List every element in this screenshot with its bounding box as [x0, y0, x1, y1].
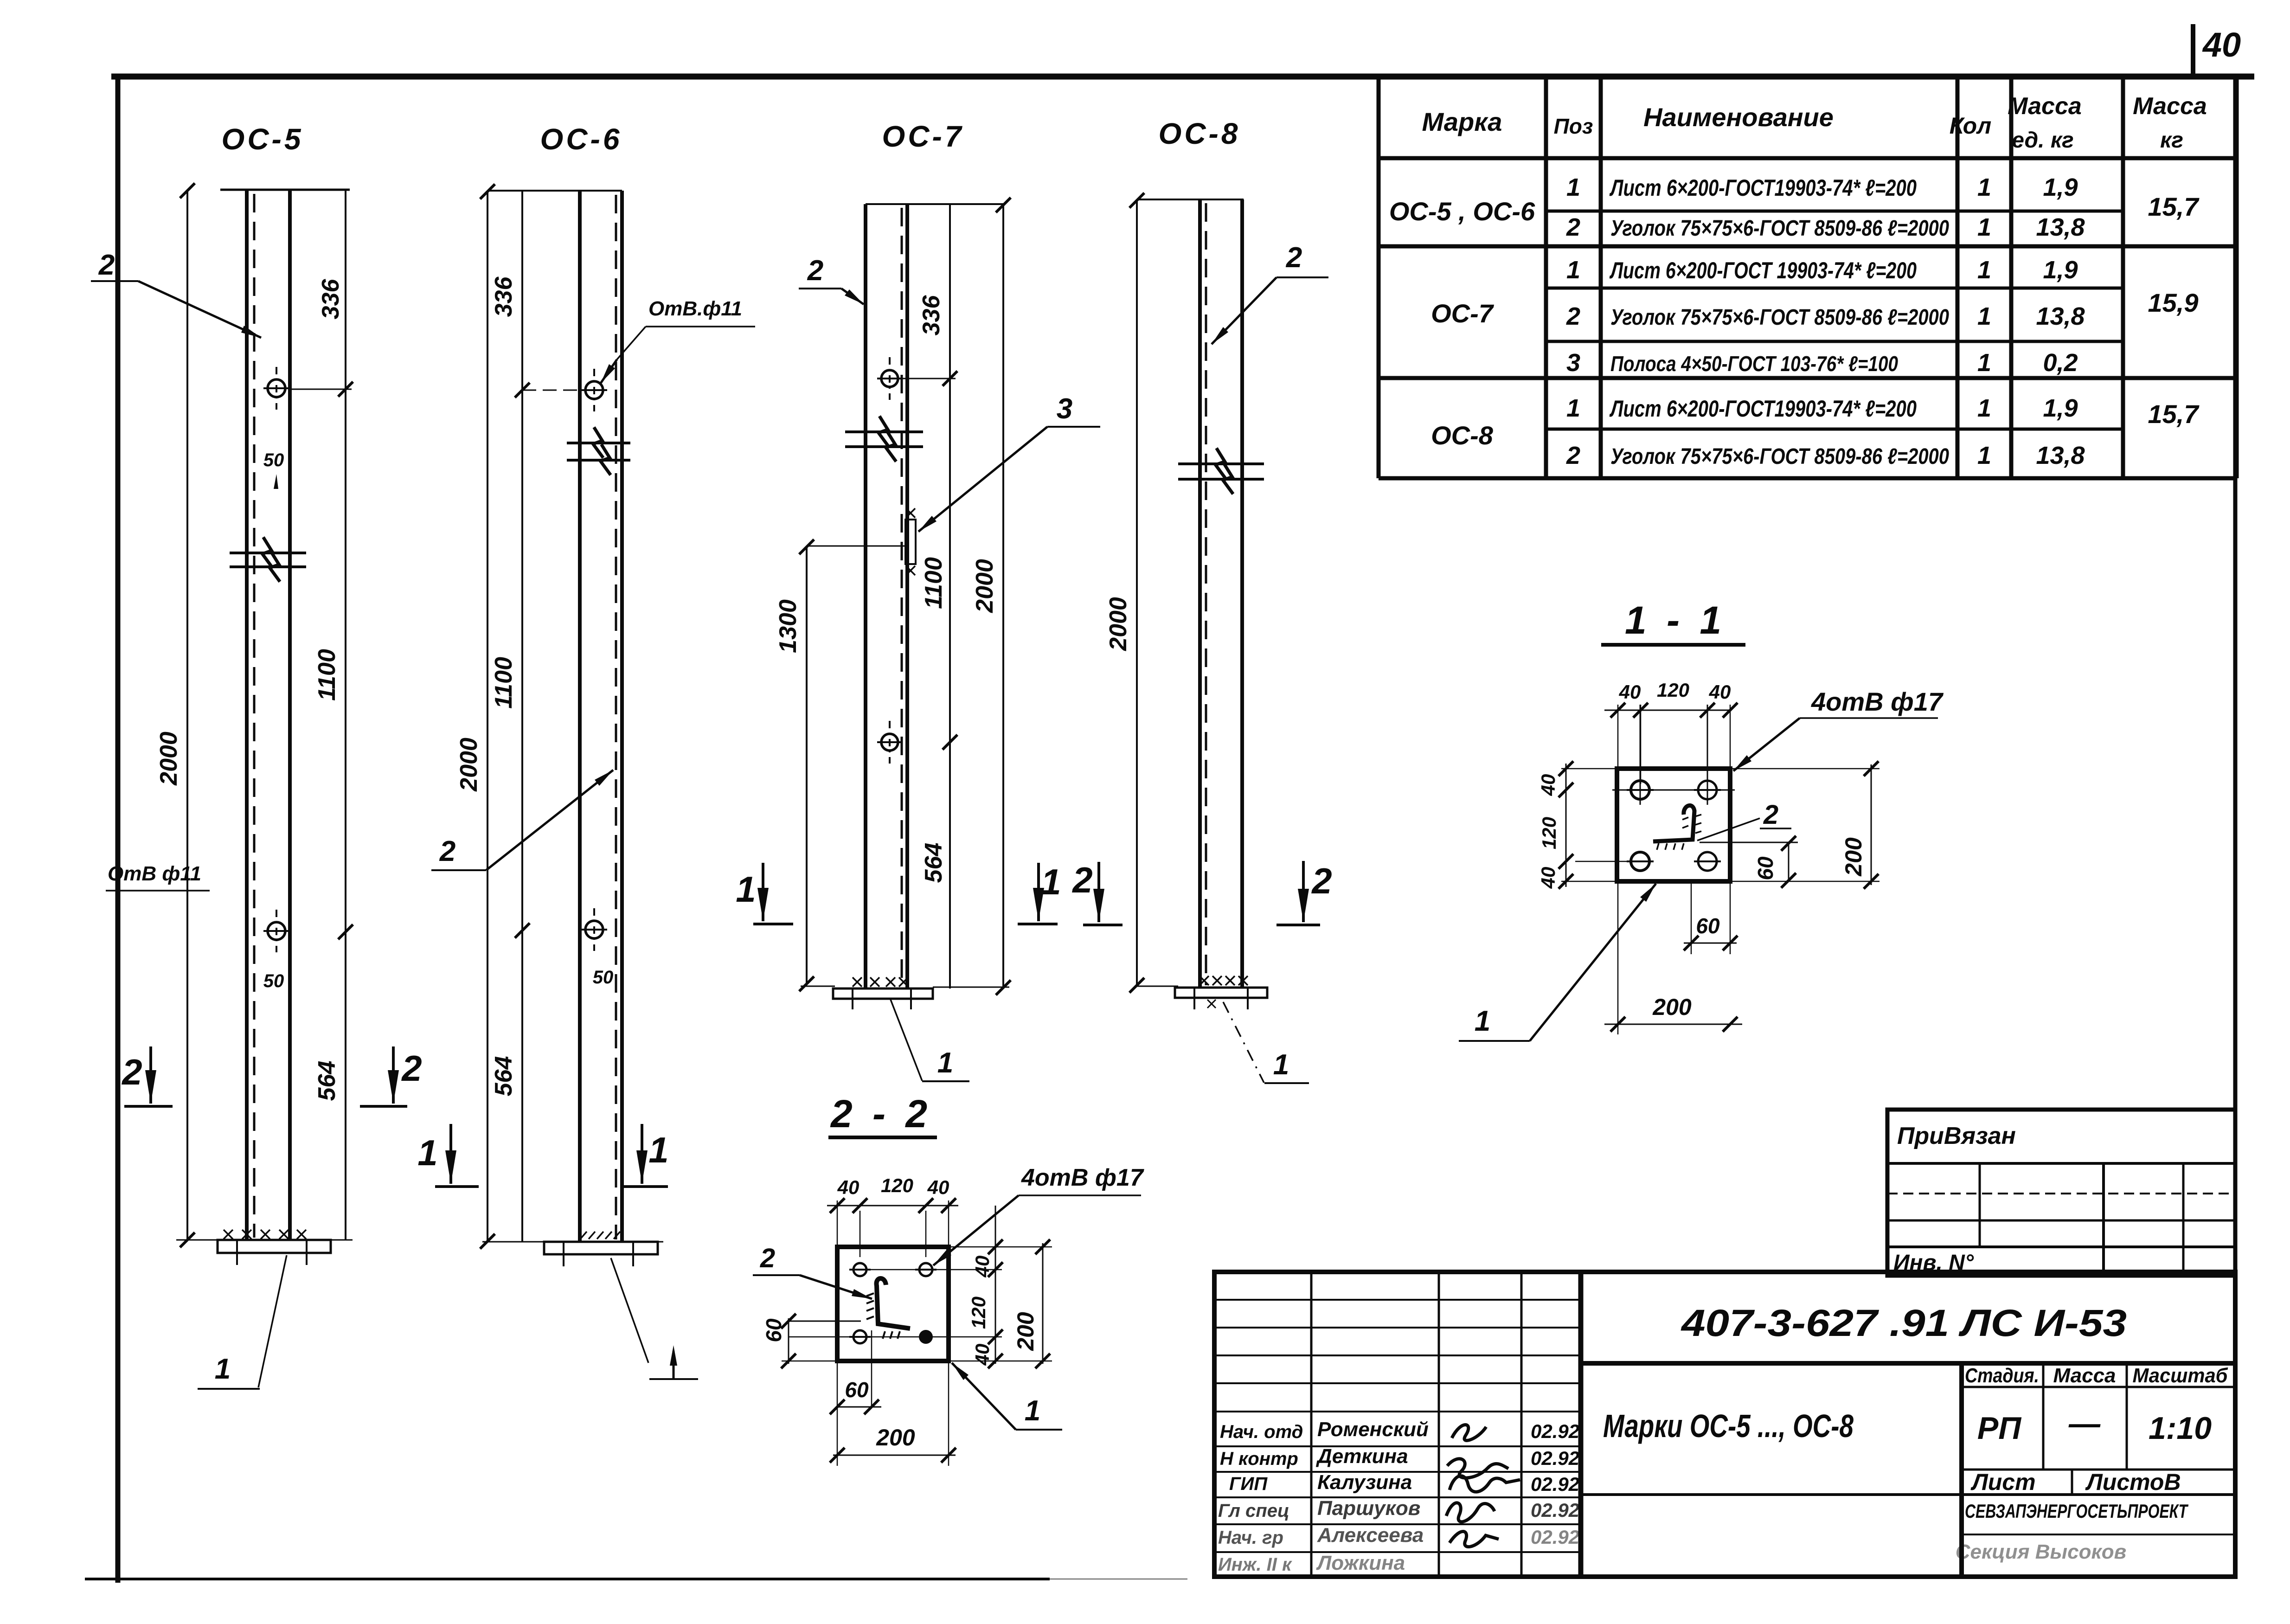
svg-text:60: 60: [845, 1378, 869, 1402]
svg-text:Нач. отд: Нач. отд: [1220, 1422, 1303, 1442]
svg-text:2: 2: [807, 255, 823, 287]
svg-text:Поз: Поз: [1554, 114, 1593, 138]
1-1 left dimension 40 120 40: [1565, 764, 1567, 887]
svg-text:40: 40: [1709, 681, 1731, 703]
1-1 hole top-left: [1631, 781, 1649, 799]
svg-text:ОС-5 , ОС-6: ОС-5 , ОС-6: [1389, 197, 1535, 226]
OC-7 base plate: [801, 986, 835, 987]
OC-6 dimension 2000 line: [487, 191, 488, 1242]
svg-text:2000: 2000: [155, 732, 182, 786]
svg-text:1: 1: [1977, 349, 1991, 377]
svg-text:1: 1: [1566, 173, 1580, 201]
section 2-2 base plate: [837, 1247, 949, 1361]
svg-text:Деткина: Деткина: [1315, 1445, 1408, 1468]
svg-text:Стадия.: Стадия.: [1965, 1364, 2039, 1387]
1-1 top dimension 40 120 40: [1604, 710, 1732, 711]
section 1-1 base plate: [1617, 769, 1730, 881]
OC-7 leader to plate pos 1: [891, 1000, 922, 1081]
OC-6 weld marks: [580, 1232, 587, 1239]
OC-6 top extension line: [488, 190, 622, 192]
svg-text:Масса: Масса: [2053, 1364, 2116, 1387]
svg-text:564: 564: [490, 1056, 517, 1097]
svg-text:40: 40: [927, 1176, 949, 1198]
2-2 right chain dimensions: [995, 1206, 996, 1364]
svg-text:13,8: 13,8: [2036, 213, 2085, 241]
svg-text:40: 40: [1537, 774, 1559, 796]
OC-6 hole 2: [585, 921, 603, 938]
svg-text:Кол: Кол: [1950, 113, 1991, 139]
svg-text:Лист 6×200-ГОСТ19903-74* ℓ=200: Лист 6×200-ГОСТ19903-74* ℓ=200: [1610, 175, 1917, 201]
2-2 hole top-left: [853, 1263, 866, 1276]
OC-7 dimension 2000 line: [1002, 204, 1004, 989]
OC-6 section mark 1 right: [641, 1124, 643, 1184]
svg-text:1,9: 1,9: [2043, 173, 2078, 201]
svg-text:15,9: 15,9: [2148, 288, 2199, 317]
svg-text:1: 1: [215, 1353, 231, 1385]
OC-5 top extension line: [220, 189, 350, 191]
svg-text:Секция Высоков: Секция Высоков: [1956, 1541, 2126, 1563]
OC-7 hole 2: [881, 734, 898, 751]
svg-text:40: 40: [971, 1256, 993, 1278]
svg-text:02.92: 02.92: [1531, 1447, 1579, 1469]
svg-text:120: 120: [881, 1175, 913, 1196]
svg-text:1100: 1100: [920, 557, 947, 609]
1-1 angle weld symbol pos 2: [1653, 805, 1694, 841]
border frame: [111, 74, 2254, 80]
svg-text:15,7: 15,7: [2148, 399, 2200, 429]
svg-text:3: 3: [1057, 393, 1072, 425]
svg-text:2: 2: [1071, 860, 1092, 900]
svg-text:13,8: 13,8: [2036, 442, 2085, 469]
svg-text:336: 336: [918, 295, 945, 336]
svg-text:2: 2: [760, 1243, 775, 1273]
svg-text:2000: 2000: [971, 559, 998, 613]
title block signature grid: [1214, 1299, 1581, 1301]
svg-text:2000: 2000: [1105, 597, 1132, 651]
svg-text:2: 2: [1763, 800, 1778, 830]
1-1 bottom dimension 200: [1617, 881, 1619, 1034]
svg-text:1: 1: [1025, 1395, 1040, 1427]
svg-text:Лист 6×200-ГОСТ 19903-74* ℓ=20: Лист 6×200-ГОСТ 19903-74* ℓ=200: [1610, 257, 1917, 283]
OC-6 angle body: [578, 191, 582, 1242]
OC-5 weld marks: [224, 1230, 233, 1239]
svg-text:60: 60: [762, 1318, 786, 1342]
svg-text:40: 40: [1537, 867, 1559, 889]
OC-7 strip position 3: [905, 520, 916, 564]
svg-text:1: 1: [1566, 256, 1580, 284]
svg-text:ГИП: ГИП: [1229, 1474, 1268, 1494]
svg-text:120: 120: [968, 1297, 989, 1329]
svg-text:ОС-5: ОС-5: [222, 122, 304, 156]
svg-text:120: 120: [1657, 679, 1689, 701]
OC-6 base plate: [482, 1241, 663, 1243]
svg-text:4отВ ф17: 4отВ ф17: [1021, 1164, 1144, 1191]
svg-text:Масса: Масса: [2133, 93, 2207, 120]
OC-7 section mark 1 left: [762, 863, 764, 921]
title block stadia header: [1959, 1363, 1964, 1577]
svg-text:1: 1: [1041, 861, 1061, 902]
svg-text:Гл спец: Гл спец: [1218, 1501, 1289, 1521]
svg-text:2: 2: [1566, 213, 1580, 241]
svg-text:1: 1: [417, 1132, 437, 1173]
1-1 hole top-right: [1698, 781, 1717, 799]
svg-text:2: 2: [1311, 860, 1332, 901]
svg-text:40: 40: [971, 1344, 993, 1366]
svg-text:1: 1: [1566, 394, 1580, 422]
svg-text:02.92: 02.92: [1531, 1420, 1579, 1442]
svg-text:1100: 1100: [314, 649, 340, 701]
OC-5 hole 1: [268, 379, 285, 397]
2-2 dimension 200 right: [949, 1246, 1052, 1248]
svg-text:Н контр: Н контр: [1220, 1449, 1298, 1469]
OC-6 break symbol: [567, 442, 630, 444]
svg-text:02.92: 02.92: [1531, 1526, 1579, 1548]
OC-5 chain dimension line: [345, 190, 346, 1240]
1-1 dimension 60 right: [1700, 842, 1798, 843]
OC-7 dimension 1300: [806, 546, 808, 985]
svg-text:Марка: Марка: [1422, 107, 1502, 136]
svg-text:1,9: 1,9: [2043, 394, 2078, 422]
2-2 top dimension 40 120 40: [827, 1205, 958, 1207]
svg-text:200: 200: [1013, 1312, 1039, 1351]
svg-text:РП: РП: [1977, 1411, 2022, 1446]
OC-6 hole 1: [585, 381, 603, 399]
OC-7 chain dimension line: [949, 204, 951, 989]
OC-8 break symbol: [1178, 462, 1264, 465]
svg-text:50: 50: [263, 971, 284, 991]
OC-8 base plate: [1137, 986, 1178, 987]
svg-text:2: 2: [1566, 302, 1580, 330]
2-2 bottom dimension 200: [948, 1361, 949, 1466]
svg-text:ОтВ.ф11: ОтВ.ф11: [648, 297, 742, 320]
svg-text:1: 1: [736, 869, 756, 910]
svg-text:60: 60: [1753, 856, 1777, 880]
OC-6 chain dimension line: [521, 191, 523, 1242]
OC-8 dimension 2000 line: [1136, 199, 1138, 986]
svg-text:2: 2: [1286, 242, 1302, 274]
svg-text:Полоса 4×50-ГОСТ 103-76* ℓ=10: Полоса 4×50-ГОСТ 103-76* ℓ=100: [1610, 352, 1898, 376]
OC-7 section mark 1 right: [1037, 863, 1040, 921]
OC-6 section mark 1 left: [449, 1124, 452, 1184]
svg-text:ПриВязан: ПриВязан: [1897, 1123, 2016, 1149]
svg-text:Масштаб: Масштаб: [2133, 1364, 2229, 1387]
svg-text:Лист 6×200-ГОСТ19903-74* ℓ=20: Лист 6×200-ГОСТ19903-74* ℓ=200: [1610, 396, 1917, 422]
svg-text:15,7: 15,7: [2148, 192, 2200, 221]
1-1 dimension 60 bottom: [1691, 881, 1692, 954]
svg-text:40: 40: [837, 1176, 860, 1198]
svg-text:Лист: Лист: [1970, 1469, 2035, 1495]
2-2 hole bottom-left: [853, 1330, 866, 1343]
svg-text:ОС-8: ОС-8: [1159, 117, 1241, 150]
svg-text:1: 1: [1475, 1005, 1490, 1037]
svg-text:Наименование: Наименование: [1643, 103, 1834, 132]
svg-text:ед. кг: ед. кг: [2012, 128, 2074, 153]
svg-text:Ложкина: Ложкина: [1316, 1552, 1405, 1574]
svg-text:1: 1: [1977, 256, 1991, 284]
2-2 hole bottom-right: [919, 1330, 933, 1344]
svg-text:Уголок 75×75×6-ГОСТ 8509-86 ℓ=: Уголок 75×75×6-ГОСТ 8509-86 ℓ=2000: [1610, 444, 1949, 469]
svg-text:ОС-7: ОС-7: [882, 120, 964, 153]
svg-text:Роменский: Роменский: [1317, 1418, 1429, 1441]
svg-text:40: 40: [2202, 26, 2241, 64]
svg-text:1 - 1: 1 - 1: [1625, 598, 1726, 642]
svg-text:50: 50: [593, 967, 614, 988]
svg-text:1,9: 1,9: [2043, 256, 2078, 284]
svg-text:2: 2: [401, 1048, 422, 1089]
svg-text:336: 336: [490, 276, 517, 317]
svg-text:1100: 1100: [490, 657, 517, 709]
signature squiggles: [1446, 1425, 1520, 1547]
OC-5 section mark 2 left: [149, 1046, 152, 1104]
svg-text:4отВ ф17: 4отВ ф17: [1811, 687, 1944, 716]
2-2 dimension 60 bottom: [871, 1330, 872, 1408]
OC-8 section mark 2 left: [1097, 862, 1100, 922]
OC-5 leader to plate pos 1: [258, 1255, 287, 1387]
svg-text:2: 2: [439, 835, 455, 867]
OC-7 top extension line: [866, 203, 1003, 205]
svg-text:40: 40: [1619, 681, 1641, 703]
svg-text:120: 120: [1538, 817, 1560, 849]
svg-text:13,8: 13,8: [2036, 302, 2085, 330]
OC-8 section mark 2 right: [1302, 861, 1305, 922]
svg-text:2: 2: [1566, 442, 1580, 469]
svg-text:336: 336: [317, 279, 344, 320]
parts table: [1377, 77, 1381, 478]
svg-text:1: 1: [1977, 173, 1991, 201]
title block frame: [1214, 1272, 2235, 1577]
svg-text:1300: 1300: [775, 599, 802, 653]
svg-text:1:10: 1:10: [2149, 1411, 2212, 1446]
svg-text:0,2: 0,2: [2043, 349, 2078, 377]
svg-text:ЛистоВ: ЛистоВ: [2085, 1469, 2181, 1495]
OC-7 break symbol: [845, 430, 923, 433]
2-2 angle weld symbol pos 2: [877, 1278, 910, 1329]
2-2 hole top-right: [919, 1263, 932, 1276]
svg-text:1: 1: [1977, 442, 1991, 469]
title block list row: [2071, 1470, 2073, 1495]
OC-8 leader to plate pos 1: [1223, 1002, 1264, 1083]
svg-text:2000: 2000: [455, 738, 482, 792]
OC-8 weld marks: [1200, 976, 1209, 985]
svg-text:02.92: 02.92: [1531, 1473, 1579, 1495]
OC-5 angle body: [245, 190, 249, 1240]
svg-text:ОС-6: ОС-6: [540, 122, 622, 156]
svg-text:407-3-627 .91 ЛС И-53: 407-3-627 .91 ЛС И-53: [1681, 1302, 2127, 1344]
svg-text:1: 1: [937, 1047, 953, 1079]
svg-text:Уголок 75×75×6-ГОСТ 8509-86 ℓ=: Уголок 75×75×6-ГОСТ 8509-86 ℓ=2000: [1610, 216, 1949, 241]
svg-text:60: 60: [1696, 914, 1720, 938]
OC-5 break symbol: [230, 552, 306, 554]
svg-text:1: 1: [1977, 302, 1991, 330]
svg-text:Алексеева: Алексеева: [1317, 1524, 1424, 1547]
svg-text:50: 50: [263, 450, 284, 470]
svg-text:2 - 2: 2 - 2: [830, 1092, 932, 1136]
svg-text:3: 3: [1566, 349, 1580, 377]
svg-text:564: 564: [920, 843, 947, 883]
svg-text:Паршуков: Паршуков: [1317, 1497, 1420, 1520]
1-1 right dimension 200: [1730, 768, 1879, 770]
OC-5 base plate: [176, 1239, 353, 1241]
OC-5 section mark 2 right: [392, 1046, 395, 1104]
svg-text:1: 1: [1977, 213, 1991, 241]
1-1 hole bottom-left: [1631, 852, 1649, 871]
svg-text:ОС-8: ОС-8: [1431, 421, 1494, 450]
OC-5 hole 2: [268, 922, 285, 940]
OC-7 angle body: [864, 204, 867, 989]
svg-text:2: 2: [121, 1052, 142, 1092]
svg-text:—: —: [2068, 1406, 2101, 1441]
svg-text:02.92: 02.92: [1531, 1499, 1579, 1521]
2-2 dimension 60 left: [789, 1321, 861, 1322]
svg-text:Марки ОС-5 ..., ОС-8: Марки ОС-5 ..., ОС-8: [1603, 1408, 1854, 1444]
svg-text:1: 1: [1977, 394, 1991, 422]
svg-text:Инж. II к: Инж. II к: [1218, 1554, 1292, 1575]
svg-text:200: 200: [1652, 994, 1692, 1020]
privyazan stamp box: [1887, 1110, 2235, 1276]
OC-5 dimension 2000 line: [186, 190, 188, 1240]
OC-6 leader to plate pos 1: [611, 1258, 648, 1363]
svg-text:1: 1: [648, 1130, 668, 1170]
svg-text:200: 200: [1841, 837, 1867, 877]
svg-text:200: 200: [876, 1425, 915, 1451]
svg-text:Уголок 75×75×6-ГОСТ 8509-86 ℓ=: Уголок 75×75×6-ГОСТ 8509-86 ℓ=2000: [1610, 305, 1949, 330]
OC-7 weld marks: [853, 977, 862, 987]
svg-text:564: 564: [314, 1061, 340, 1101]
svg-text:ОтВ ф11: ОтВ ф11: [108, 862, 201, 885]
svg-text:1: 1: [1273, 1049, 1289, 1081]
svg-text:кг: кг: [2160, 128, 2183, 153]
OC-7 hole 1: [881, 370, 898, 387]
svg-text:Калузина: Калузина: [1317, 1471, 1412, 1494]
svg-text:ОС-7: ОС-7: [1431, 299, 1495, 328]
OC-8 angle body: [1198, 199, 1202, 988]
svg-text:СЕВЗАПЭНЕРГОСЕТЬПРОЕКТ: СЕВЗАПЭНЕРГОСЕТЬПРОЕКТ: [1965, 1500, 2189, 1522]
svg-text:Нач. гр: Нач. гр: [1218, 1528, 1283, 1548]
svg-text:Масса: Масса: [2008, 93, 2082, 120]
sheet number tick: [2191, 24, 2195, 76]
1-1 hole bottom-right: [1698, 852, 1717, 871]
svg-text:2: 2: [98, 249, 115, 281]
